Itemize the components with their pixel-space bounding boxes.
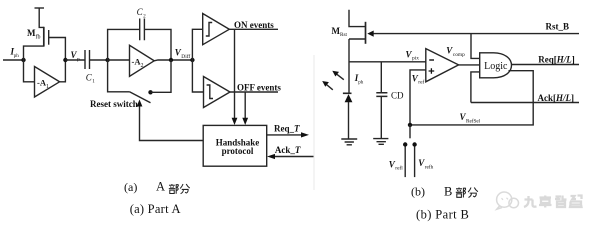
arrowhead Req_T xyxy=(301,132,309,137)
wire A2 input rail xyxy=(108,59,130,61)
wire ON output xyxy=(229,28,278,30)
svg-text:Rst: Rst xyxy=(340,32,347,38)
CJK 部 (caption b) xyxy=(456,188,466,198)
wire M_Rst drain lead xyxy=(349,10,366,27)
wire V_refl stub xyxy=(404,145,406,178)
op-amp A1 triangle xyxy=(35,67,60,98)
watermark text 九章智驾 xyxy=(524,196,582,208)
wire OFF to handshake vertical xyxy=(244,92,246,118)
wire amp A1 output up to V_p xyxy=(60,60,66,82)
CJK 分 (caption a) xyxy=(180,184,190,194)
arrowhead OFF into box xyxy=(242,118,248,125)
svg-text:ph: ph xyxy=(358,81,364,86)
wire CD to ground xyxy=(380,96,382,138)
wire M_fb drain lead to supply xyxy=(39,8,44,27)
svg-text:Req[H/L]: Req[H/L] xyxy=(538,54,575,64)
seam line between part A and part B xyxy=(313,55,315,190)
svg-text:B: B xyxy=(444,185,452,199)
supply bar top of M_fb xyxy=(35,7,45,9)
svg-text:RefSel: RefSel xyxy=(466,117,481,124)
wire Logic lower output to V_RefSel xyxy=(410,71,533,125)
wire reset row left xyxy=(108,60,130,92)
wire comparator output to Logic xyxy=(459,64,480,66)
node reset switch contact dot xyxy=(148,90,152,94)
arrowhead light arrow 1 xyxy=(332,71,339,77)
CJK 章 xyxy=(539,196,552,208)
arrowhead M_Rst gate xyxy=(367,31,373,37)
CJK 驾 xyxy=(570,196,582,208)
svg-text:ref: ref xyxy=(418,79,424,86)
wire V_ref vertical and plus input xyxy=(410,70,426,125)
wire Req line xyxy=(511,64,579,66)
wire C2 feedback top right xyxy=(144,29,171,60)
node V_RefSel dot xyxy=(408,123,412,127)
logic block AND-gate shape xyxy=(480,53,512,78)
svg-text:A: A xyxy=(156,180,165,194)
op-amp A2 triangle xyxy=(130,45,155,76)
wire C2 feedback top left xyxy=(108,29,140,60)
transistor M_fb gate bar xyxy=(48,30,50,45)
wire Ack line xyxy=(471,102,579,104)
svg-text:CD: CD xyxy=(391,91,404,101)
ground under photodiode xyxy=(341,139,357,145)
label minus sign comparator xyxy=(429,59,434,61)
svg-text:pix: pix xyxy=(412,56,419,62)
svg-text:protocol: protocol xyxy=(222,146,254,156)
wire reset row right xyxy=(151,60,172,92)
wire comparator ON input branch xyxy=(192,29,202,60)
svg-text:Diff: Diff xyxy=(181,53,190,60)
node A2 input dot xyxy=(105,58,109,62)
svg-text:Ack_T: Ack_T xyxy=(275,145,301,155)
svg-text:fb: fb xyxy=(36,34,41,41)
wire V_p to C1 xyxy=(65,59,85,61)
light arrow 1 shaft xyxy=(335,72,344,79)
CJK 九 xyxy=(524,196,537,207)
capacitor C1 plates xyxy=(85,50,90,69)
wire M_fb gate to V_p node xyxy=(49,38,66,61)
svg-text:refh: refh xyxy=(425,163,434,170)
wire ON to handshake vertical xyxy=(234,29,236,118)
node V_refl dot xyxy=(403,142,407,146)
node V_p dot xyxy=(63,58,67,62)
wire V_refh stub xyxy=(414,145,416,178)
svg-text:OFF events: OFF events xyxy=(237,83,281,93)
wire OFF output xyxy=(230,91,278,93)
svg-text:Reset switch: Reset switch xyxy=(90,99,138,109)
transistor M_fb channel xyxy=(43,27,45,47)
svg-text:(a): (a) xyxy=(124,180,137,194)
svg-text:ON events: ON events xyxy=(234,20,274,30)
icon step-down inside OFF comparator xyxy=(207,85,213,99)
wire comparator OFF input branch xyxy=(192,60,203,92)
arrowhead ON into box xyxy=(232,118,238,125)
svg-text:Rst_B: Rst_B xyxy=(546,21,570,31)
svg-text:(b): (b) xyxy=(411,185,425,199)
ground under CD xyxy=(373,139,388,145)
capacitor C2 plates xyxy=(140,19,145,41)
comparator B triangle xyxy=(426,49,459,82)
svg-text:1: 1 xyxy=(92,79,95,85)
reset switch blade xyxy=(130,92,151,103)
wire photodiode anode down xyxy=(348,102,350,139)
node V_refh dot xyxy=(412,142,416,146)
transistor M_Rst channel xyxy=(365,22,367,44)
CJK 智 xyxy=(555,196,567,208)
svg-text:Logic: Logic xyxy=(484,61,508,72)
svg-text:(b) Part B: (b) Part B xyxy=(416,207,469,221)
wire I_ph input line xyxy=(3,59,24,61)
svg-text:(a) Part A: (a) Part A xyxy=(130,202,181,216)
arrowhead Ack_T xyxy=(267,154,275,159)
svg-text:refl: refl xyxy=(395,165,403,172)
node V_diff dot right xyxy=(190,58,194,62)
CJK 分 (caption b) xyxy=(468,188,478,198)
wire amp A1 input xyxy=(24,60,35,82)
icon step-up inside ON comparator xyxy=(206,23,212,37)
svg-text:Ack[H/L]: Ack[H/L] xyxy=(538,93,575,103)
CJK 部 (caption a) xyxy=(169,184,179,194)
photodiode triangle xyxy=(345,94,353,102)
wire Ack to Logic connector xyxy=(471,72,480,103)
svg-text:2: 2 xyxy=(141,63,144,69)
wire C1 to A2 input node xyxy=(90,59,108,61)
capacitor CD plates xyxy=(376,93,387,97)
arrowhead light arrow 2 xyxy=(322,81,329,87)
label plus sign comparator xyxy=(429,68,435,74)
wire CD branch from rail xyxy=(380,62,382,93)
photodiode cathode bar xyxy=(343,92,352,94)
svg-text:p: p xyxy=(77,56,80,62)
wire Ack_T arrow xyxy=(275,156,315,158)
svg-text:1: 1 xyxy=(46,84,49,90)
wire Req_T arrow xyxy=(267,134,303,136)
light arrow 2 shaft xyxy=(324,83,333,90)
wire M_fb source lead xyxy=(24,46,44,60)
wire Rst_B line xyxy=(374,33,580,35)
node I_ph junction dot xyxy=(21,58,25,62)
wire M_Rst source down through V_pix rail to photodiode xyxy=(348,39,350,93)
wire Rst_B to Logic connector xyxy=(471,34,480,59)
node V_diff dot left xyxy=(169,58,173,62)
svg-text:2: 2 xyxy=(143,14,146,20)
wire M_Rst source lead xyxy=(349,38,366,40)
svg-text:ph: ph xyxy=(14,54,19,59)
watermark logo bubbles xyxy=(497,192,519,209)
comparator ON triangle xyxy=(203,14,230,45)
comparator OFF triangle xyxy=(204,77,231,108)
wire V_pix rail xyxy=(349,61,426,63)
arrowhead reset control xyxy=(137,100,143,107)
svg-text:Req_T: Req_T xyxy=(274,123,300,133)
wire A2 output rail xyxy=(154,59,192,62)
wire V_ref tail below dot xyxy=(409,125,411,138)
svg-text:comp: comp xyxy=(453,52,465,58)
handshake protocol box xyxy=(203,125,267,166)
wire reset control from handshake box xyxy=(140,105,204,141)
